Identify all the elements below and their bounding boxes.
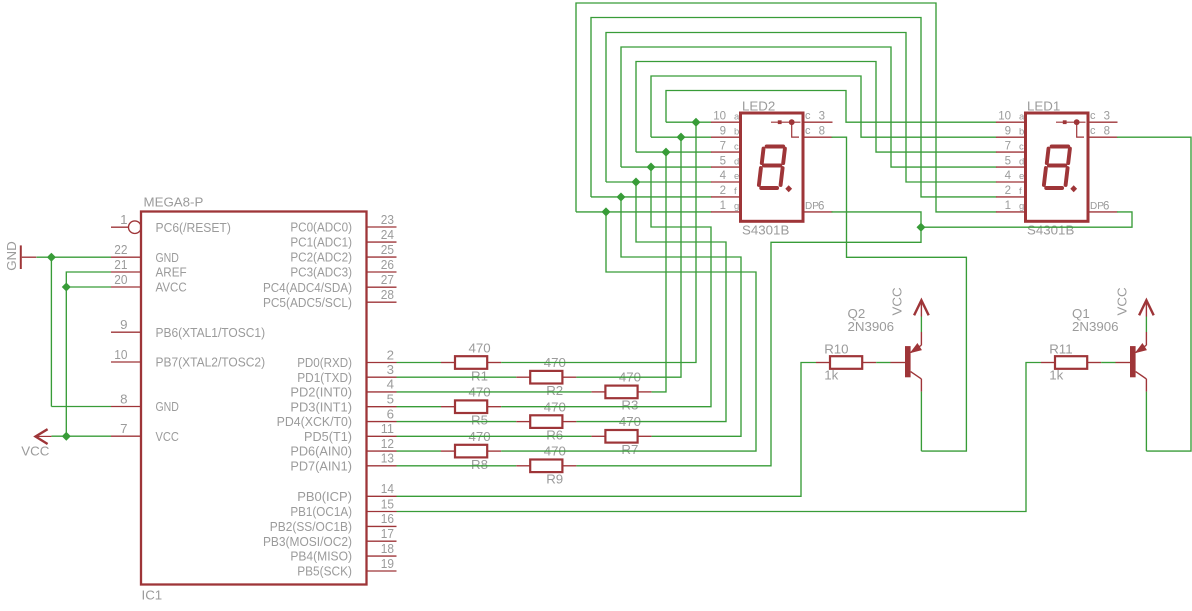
svg-text:3: 3 bbox=[1104, 111, 1110, 123]
wire LED2 row g horizontal bbox=[576, 211, 712, 213]
supply symbol VCC above Q2 bbox=[914, 300, 929, 316]
svg-text:c: c bbox=[805, 110, 811, 122]
svg-text:26: 26 bbox=[381, 257, 394, 272]
wire Q2 emitter to VCC bbox=[920, 317, 922, 333]
svg-text:g: g bbox=[1019, 201, 1024, 212]
pin 18 stub bbox=[367, 555, 397, 557]
svg-text:PB4(MISO): PB4(MISO) bbox=[290, 549, 352, 564]
pin 8 stub bbox=[111, 406, 141, 408]
svg-text:R9: R9 bbox=[546, 472, 563, 487]
pin 13 stub bbox=[367, 465, 397, 467]
display LED2 internal common tie bbox=[771, 119, 801, 137]
svg-text:7: 7 bbox=[720, 140, 726, 152]
svg-text:R10: R10 bbox=[824, 342, 848, 357]
wire AREF corner vertical bbox=[66, 272, 111, 436]
wire top arc net b over to LED1 bbox=[651, 76, 997, 137]
wire LED2 row f horizontal bbox=[591, 196, 712, 198]
svg-text:c: c bbox=[1090, 125, 1096, 137]
svg-text:20: 20 bbox=[114, 272, 127, 287]
pin 15 stub bbox=[367, 511, 397, 513]
svg-text:PC6(/RESET): PC6(/RESET) bbox=[156, 220, 231, 235]
pin 12 stub bbox=[367, 450, 397, 452]
pin 6 stub bbox=[367, 421, 397, 423]
svg-text:MEGA8-P: MEGA8-P bbox=[144, 195, 204, 210]
display LED1 internal common tie bbox=[1056, 119, 1086, 137]
svg-text:4: 4 bbox=[1005, 170, 1012, 182]
display LED1 pin 1 segment g stub bbox=[996, 211, 1026, 213]
pin 14 stub bbox=[367, 495, 397, 497]
svg-text:PD1(TXD): PD1(TXD) bbox=[297, 370, 352, 385]
display LED1 digit 8 glyph bbox=[1044, 147, 1070, 189]
svg-text:AVCC: AVCC bbox=[156, 280, 188, 295]
supply symbol VCC (left arrow) bbox=[36, 429, 48, 444]
junction net d at LED2 row bbox=[647, 163, 655, 171]
svg-text:LED1: LED1 bbox=[1027, 99, 1060, 114]
pin 21 stub bbox=[111, 271, 141, 273]
junction net c at LED2 row bbox=[662, 148, 670, 156]
svg-text:2N3906: 2N3906 bbox=[848, 319, 895, 334]
svg-text:21: 21 bbox=[114, 257, 127, 272]
resistor R6 (470) bbox=[516, 399, 576, 442]
pin 26 stub bbox=[367, 271, 397, 273]
pin 3 stub bbox=[367, 376, 397, 378]
wire Q1 collector down bbox=[1145, 392, 1147, 452]
display LED1 common pin 8 stub bbox=[1088, 136, 1118, 138]
svg-text:6: 6 bbox=[818, 200, 824, 212]
svg-text:PB0(ICP): PB0(ICP) bbox=[297, 489, 352, 504]
pin 10 stub bbox=[111, 361, 141, 363]
svg-text:PD2(INT0): PD2(INT0) bbox=[290, 385, 352, 400]
svg-text:d: d bbox=[1019, 156, 1024, 167]
wire GND vertical to pin 8 bbox=[50, 257, 52, 406]
wire net segment E riser with jog bbox=[576, 182, 726, 422]
svg-text:4: 4 bbox=[387, 377, 394, 392]
svg-text:13: 13 bbox=[381, 451, 394, 466]
resistor R7 (470) bbox=[591, 414, 651, 457]
display LED1 decimal point pin 6 stub bbox=[1088, 211, 1118, 213]
svg-text:R2: R2 bbox=[546, 383, 563, 398]
resistor R2 (470) bbox=[516, 355, 576, 398]
wire top arc net f over to LED1 bbox=[591, 18, 997, 197]
svg-text:28: 28 bbox=[381, 287, 394, 302]
svg-text:PC2(ADC2): PC2(ADC2) bbox=[290, 250, 352, 265]
wire LED1 common c8 down to Q1 collector bbox=[1117, 137, 1191, 451]
svg-text:5: 5 bbox=[387, 392, 394, 407]
svg-text:GND: GND bbox=[4, 241, 19, 271]
svg-text:PB3(MOSI/OC2): PB3(MOSI/OC2) bbox=[263, 534, 352, 549]
svg-text:R5: R5 bbox=[471, 413, 488, 428]
svg-text:15: 15 bbox=[381, 496, 394, 511]
wire LED2 row b horizontal bbox=[651, 136, 712, 138]
pin 22 stub bbox=[111, 256, 141, 258]
wire LED2 row d horizontal bbox=[621, 166, 712, 168]
svg-text:IC1: IC1 bbox=[142, 588, 163, 603]
svg-text:1: 1 bbox=[720, 200, 726, 212]
resistor R5 (470) bbox=[441, 385, 501, 428]
pin 5 stub bbox=[367, 406, 397, 408]
svg-text:PB7(XTAL2/TOSC2): PB7(XTAL2/TOSC2) bbox=[156, 355, 266, 370]
svg-text:VCC: VCC bbox=[21, 443, 49, 458]
wire to pin 8 GND bbox=[51, 406, 111, 408]
svg-text:d: d bbox=[734, 156, 739, 167]
junction net e at LED2 row bbox=[632, 178, 640, 186]
display LED1 pin 2 segment f stub bbox=[996, 196, 1026, 198]
svg-text:9: 9 bbox=[720, 125, 726, 137]
transistor Q1 2N3906 bbox=[1116, 332, 1147, 392]
pin 7 stub bbox=[111, 435, 141, 437]
wire Q2 collector down bbox=[920, 392, 922, 452]
wire LED2 row a horizontal bbox=[666, 121, 712, 123]
junction AVCC bbox=[63, 283, 71, 291]
svg-text:22: 22 bbox=[114, 242, 127, 257]
resistor R8 (470) bbox=[441, 429, 501, 472]
svg-text:PD0(RXD): PD0(RXD) bbox=[297, 355, 352, 370]
svg-text:4: 4 bbox=[720, 170, 727, 182]
svg-text:7: 7 bbox=[1005, 140, 1011, 152]
display LED2 pin 9 segment b stub bbox=[711, 136, 741, 138]
display LED2 common pin 3 stub bbox=[803, 121, 833, 123]
display LED2 digit 8 glyph bbox=[759, 147, 785, 189]
display LED2 pin 2 segment f stub bbox=[711, 196, 741, 198]
display LED2 common pin 8 stub bbox=[803, 136, 833, 138]
wire to pin 20 AVCC bbox=[66, 286, 111, 288]
svg-text:GND: GND bbox=[156, 250, 179, 265]
svg-text:6: 6 bbox=[1103, 200, 1109, 212]
svg-text:25: 25 bbox=[381, 242, 394, 257]
svg-text:R8: R8 bbox=[471, 457, 488, 472]
ground symbol GND bbox=[20, 245, 22, 269]
wire LED2 row e horizontal bbox=[606, 181, 712, 183]
svg-text:1k: 1k bbox=[1049, 367, 1063, 382]
svg-text:GND: GND bbox=[156, 399, 179, 414]
resistor R11 (1k) bbox=[1041, 342, 1101, 383]
display LED2 pin 10 segment a stub bbox=[711, 121, 741, 123]
svg-text:S4301B: S4301B bbox=[1027, 223, 1074, 238]
svg-text:c: c bbox=[734, 141, 739, 152]
svg-text:PC0(ADC0): PC0(ADC0) bbox=[290, 220, 352, 235]
svg-text:PB6(XTAL1/TOSC1): PB6(XTAL1/TOSC1) bbox=[156, 325, 266, 340]
svg-text:6: 6 bbox=[387, 406, 394, 421]
svg-text:19: 19 bbox=[381, 556, 394, 571]
svg-text:16: 16 bbox=[381, 511, 394, 526]
pin 19 stub bbox=[367, 570, 397, 572]
resistor R3 (470) bbox=[591, 370, 651, 413]
svg-text:PD6(AIN0): PD6(AIN0) bbox=[290, 444, 352, 459]
svg-text:R7: R7 bbox=[621, 442, 638, 457]
pin 23 stub bbox=[367, 226, 397, 228]
svg-text:1k: 1k bbox=[824, 367, 838, 382]
display LED1 pin 5 segment d stub bbox=[996, 166, 1026, 168]
wire pin 11 to resistor (net seg f) bbox=[397, 435, 592, 437]
svg-text:PC4(ADC4/SDA): PC4(ADC4/SDA) bbox=[263, 280, 352, 295]
svg-text:a: a bbox=[1019, 111, 1025, 122]
svg-text:PC5(ADC5/SCL): PC5(ADC5/SCL) bbox=[263, 295, 352, 310]
display LED2 pin 1 segment g stub bbox=[711, 211, 741, 213]
wire top arc net a over to LED1 bbox=[666, 91, 997, 123]
svg-text:2: 2 bbox=[387, 347, 394, 362]
junction net b at LED2 row bbox=[677, 133, 685, 141]
svg-text:PB5(SCK): PB5(SCK) bbox=[297, 564, 352, 579]
svg-text:9: 9 bbox=[120, 317, 127, 332]
wire Q1 emitter to VCC bbox=[1145, 317, 1147, 333]
display LED2 decimal point pin 6 stub bbox=[803, 211, 833, 213]
svg-text:10: 10 bbox=[114, 347, 127, 362]
wire pin 13 to resistor (net seg dp) bbox=[397, 465, 517, 467]
svg-text:LED2: LED2 bbox=[742, 99, 775, 114]
svg-text:PB1(OC1A): PB1(OC1A) bbox=[290, 504, 352, 519]
wire top arc net c over to LED1 bbox=[636, 62, 997, 153]
wire net segment D riser with jog bbox=[501, 167, 711, 407]
wire net segment B riser bbox=[576, 137, 681, 377]
svg-text:c: c bbox=[1090, 110, 1096, 122]
svg-text:470: 470 bbox=[469, 340, 491, 355]
wire pin 6 to resistor (net seg e) bbox=[397, 421, 517, 423]
wire pin 4 to resistor (net seg c) bbox=[397, 391, 592, 393]
junction net g at LED2 row bbox=[602, 208, 610, 216]
wire pin 5 to resistor (net seg d) bbox=[397, 406, 442, 408]
svg-text:2: 2 bbox=[720, 185, 726, 197]
display LED1 common pin 3 stub bbox=[1088, 121, 1118, 123]
svg-text:PC1(ADC1): PC1(ADC1) bbox=[290, 235, 352, 250]
svg-text:2: 2 bbox=[1005, 185, 1011, 197]
junction net f at LED2 row bbox=[617, 193, 625, 201]
pin 25 stub bbox=[367, 256, 397, 258]
svg-text:10: 10 bbox=[998, 110, 1011, 122]
wire pin 14 to R10 bbox=[397, 363, 817, 497]
svg-text:2N3906: 2N3906 bbox=[1072, 319, 1119, 334]
resistor R1 (470) bbox=[441, 340, 501, 383]
svg-text:27: 27 bbox=[381, 272, 394, 287]
7-segment display LED2 body (S4301B) bbox=[741, 113, 804, 221]
svg-text:1: 1 bbox=[120, 212, 127, 227]
svg-text:PD7(AIN1): PD7(AIN1) bbox=[290, 458, 352, 473]
wire pin 3 to resistor (net seg b) bbox=[397, 376, 517, 378]
wire net segment G riser with jog bbox=[501, 212, 756, 451]
svg-text:8: 8 bbox=[819, 126, 825, 138]
wire net segment A riser bbox=[501, 122, 696, 362]
svg-text:a: a bbox=[734, 111, 740, 122]
svg-text:R6: R6 bbox=[546, 427, 563, 442]
junction VCC/pin7 bbox=[63, 432, 71, 440]
wire LED2 common c8 down to Q2 collector bbox=[832, 137, 967, 451]
junction DP net bbox=[917, 223, 925, 231]
svg-text:e: e bbox=[734, 171, 739, 182]
svg-text:VCC: VCC bbox=[890, 287, 905, 315]
svg-text:AREF: AREF bbox=[156, 265, 187, 280]
wire DP net riser from R9 bbox=[576, 212, 921, 466]
wire pin 2 to resistor (net seg a) bbox=[397, 362, 442, 364]
svg-text:f: f bbox=[1019, 186, 1022, 197]
svg-text:g: g bbox=[734, 201, 739, 212]
pin 4 stub bbox=[367, 391, 397, 393]
svg-text:PD3(INT1): PD3(INT1) bbox=[290, 399, 352, 414]
svg-text:5: 5 bbox=[1005, 155, 1011, 167]
pin 2 stub bbox=[367, 362, 397, 364]
svg-text:14: 14 bbox=[381, 481, 394, 496]
display LED1 pin 7 segment c stub bbox=[996, 151, 1026, 153]
display LED1 pin 9 segment b stub bbox=[996, 136, 1026, 138]
svg-text:e: e bbox=[1019, 171, 1024, 182]
svg-text:S4301B: S4301B bbox=[742, 223, 789, 238]
pin 27 stub bbox=[367, 286, 397, 288]
junction GND/pin22 bbox=[48, 253, 56, 261]
wire net segment C riser bbox=[652, 152, 666, 392]
pin 16 stub bbox=[367, 525, 397, 527]
svg-text:f: f bbox=[734, 186, 737, 197]
display LED2 pin 5 segment d stub bbox=[711, 166, 741, 168]
transistor Q2 2N3906 bbox=[891, 332, 922, 392]
pin 17 stub bbox=[367, 540, 397, 542]
supply symbol VCC above Q1 bbox=[1139, 300, 1154, 316]
resistor R10 (1k) bbox=[816, 342, 876, 383]
wire top arc net e over to LED1 bbox=[606, 33, 997, 183]
svg-text:23: 23 bbox=[381, 212, 394, 227]
svg-text:PB2(SS/OC1B): PB2(SS/OC1B) bbox=[270, 519, 352, 534]
svg-text:PC3(ADC3): PC3(ADC3) bbox=[290, 265, 352, 280]
svg-text:3: 3 bbox=[387, 362, 394, 377]
wire LED2 row c horizontal bbox=[636, 151, 712, 153]
wire DP net branch to LED1 bbox=[921, 212, 1132, 227]
pin 24 stub bbox=[367, 241, 397, 243]
svg-text:R3: R3 bbox=[621, 398, 638, 413]
svg-text:b: b bbox=[1019, 126, 1024, 137]
pin 20 stub bbox=[111, 286, 141, 288]
7-segment display LED1 body (S4301B) bbox=[1026, 113, 1089, 221]
wire R11 to Q1 base bbox=[1101, 362, 1115, 364]
svg-text:7: 7 bbox=[120, 421, 127, 436]
svg-text:PD5(T1): PD5(T1) bbox=[304, 429, 352, 444]
pin 11 stub bbox=[367, 435, 397, 437]
svg-text:b: b bbox=[734, 126, 739, 137]
wire top arc net g over to LED1 bbox=[576, 3, 997, 212]
svg-text:17: 17 bbox=[381, 526, 394, 541]
pin 9 stub bbox=[111, 331, 141, 333]
svg-text:12: 12 bbox=[381, 436, 394, 451]
svg-text:R1: R1 bbox=[471, 368, 488, 383]
junction net a at LED2 row bbox=[692, 118, 700, 126]
wire R10 to Q2 base bbox=[876, 362, 890, 364]
svg-text:c: c bbox=[1019, 141, 1024, 152]
svg-text:PD4(XCK/T0): PD4(XCK/T0) bbox=[277, 414, 352, 429]
op-amp-style IC body IC1 (MEGA8-P) bbox=[141, 212, 367, 585]
wire top arc net d over to LED1 bbox=[621, 47, 997, 167]
wire pin 12 to resistor (net seg g) bbox=[397, 450, 442, 452]
svg-text:5: 5 bbox=[720, 155, 726, 167]
pin 28 stub bbox=[367, 301, 397, 303]
svg-text:11: 11 bbox=[381, 421, 394, 436]
pin 1 PC6(/RESET) stub with circle bbox=[111, 226, 129, 228]
svg-text:24: 24 bbox=[381, 227, 394, 242]
display LED2 pin 4 segment e stub bbox=[711, 181, 741, 183]
svg-text:1: 1 bbox=[1005, 200, 1011, 212]
svg-text:18: 18 bbox=[381, 541, 394, 556]
svg-text:9: 9 bbox=[1005, 125, 1011, 137]
svg-text:8: 8 bbox=[120, 391, 127, 406]
svg-text:R11: R11 bbox=[1049, 342, 1072, 357]
display LED1 pin 10 segment a stub bbox=[996, 121, 1026, 123]
resistor R9 (470) bbox=[516, 444, 576, 487]
svg-text:3: 3 bbox=[819, 111, 825, 123]
display LED1 pin 4 segment e stub bbox=[996, 181, 1026, 183]
svg-text:c: c bbox=[805, 125, 811, 137]
wire pin 15 to R11 bbox=[397, 363, 1042, 512]
display LED2 pin 7 segment c stub bbox=[711, 151, 741, 153]
wire to pin 7 VCC bbox=[51, 435, 111, 437]
svg-text:VCC: VCC bbox=[156, 429, 180, 444]
svg-text:10: 10 bbox=[713, 110, 726, 122]
svg-text:8: 8 bbox=[1104, 126, 1110, 138]
wire net segment F riser with jog bbox=[621, 197, 741, 436]
wire GND to pin 22 bbox=[37, 256, 112, 258]
svg-text:VCC: VCC bbox=[1115, 287, 1130, 315]
